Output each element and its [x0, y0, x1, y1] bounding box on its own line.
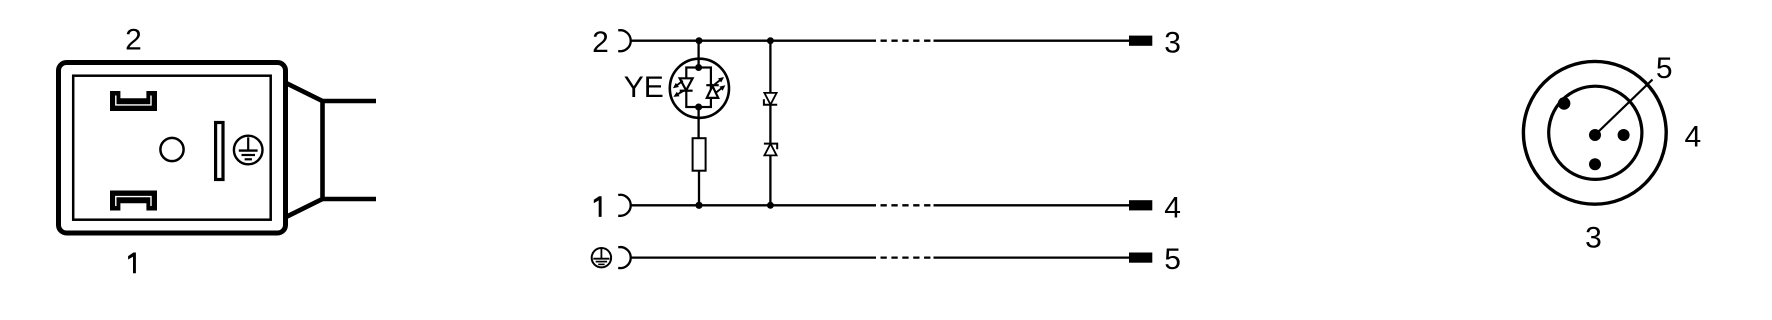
svg-text:5: 5	[1656, 52, 1673, 85]
svg-text:3: 3	[1585, 222, 1602, 255]
svg-text:2: 2	[592, 26, 609, 59]
svg-text:4: 4	[1684, 121, 1701, 154]
svg-text:2: 2	[125, 23, 142, 56]
svg-text:YE: YE	[624, 71, 664, 104]
svg-text:3: 3	[1164, 26, 1181, 59]
svg-text:4: 4	[1164, 192, 1181, 225]
svg-text:5: 5	[1164, 243, 1181, 276]
